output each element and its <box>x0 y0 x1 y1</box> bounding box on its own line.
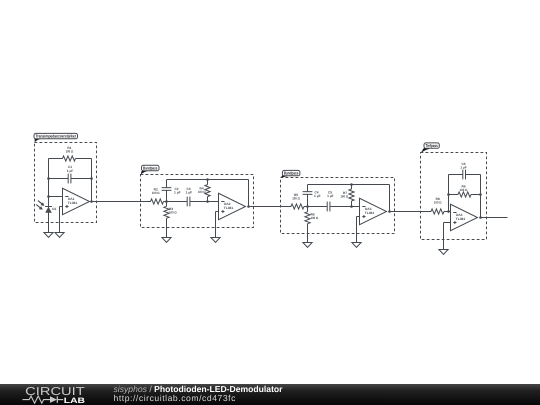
svg-text:Bandpass: Bandpass <box>143 165 158 170</box>
svg-text:1 µF: 1 µF <box>460 166 467 170</box>
svg-text:100 Ω: 100 Ω <box>152 191 160 195</box>
svg-text:100 Ω: 100 Ω <box>198 190 206 194</box>
svg-text:TL081: TL081 <box>456 217 466 221</box>
svg-text:100 Ω: 100 Ω <box>66 150 74 154</box>
svg-text:1 µF: 1 µF <box>327 194 334 198</box>
svg-text:Tiefpass: Tiefpass <box>425 143 438 148</box>
svg-text:Transimpedanzverstärker: Transimpedanzverstärker <box>36 134 77 139</box>
svg-text:http://circuitlab.com/cd473fc: http://circuitlab.com/cd473fc <box>114 393 237 403</box>
svg-text:100 Ω: 100 Ω <box>292 197 300 201</box>
svg-text:100 Ω: 100 Ω <box>311 216 319 220</box>
svg-text:100 Ω: 100 Ω <box>340 195 348 199</box>
svg-text:100 Ω: 100 Ω <box>434 201 442 205</box>
svg-text:TL081: TL081 <box>365 211 375 215</box>
svg-text:LAB: LAB <box>64 396 86 405</box>
svg-text:TL081: TL081 <box>68 201 78 205</box>
svg-text:D1: D1 <box>52 207 56 211</box>
svg-text:Bandpass: Bandpass <box>284 171 299 176</box>
svg-text:1 µF: 1 µF <box>314 194 321 198</box>
svg-text:100 Ω: 100 Ω <box>460 188 468 192</box>
svg-text:100 Ω: 100 Ω <box>169 211 177 215</box>
svg-text:1 µF: 1 µF <box>67 169 74 173</box>
svg-text:1 µF: 1 µF <box>186 191 193 195</box>
svg-text:1 µF: 1 µF <box>174 191 181 195</box>
svg-text:TL081: TL081 <box>224 206 234 210</box>
